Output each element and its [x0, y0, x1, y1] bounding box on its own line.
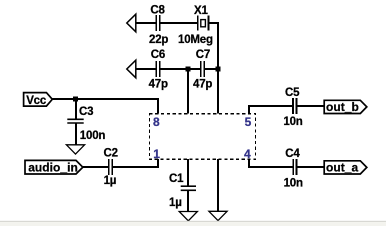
wire — [217, 159, 219, 211]
capacitor C1 — [169, 173, 196, 209]
ground — [179, 212, 197, 221]
svg-text:C7: C7 — [196, 49, 210, 61]
IC dashed outline — [149, 114, 255, 160]
svg-text:10Meg: 10Meg — [178, 34, 213, 46]
wire — [112, 166, 159, 168]
wire — [157, 159, 159, 168]
port Vcc — [24, 93, 53, 107]
wire — [157, 98, 159, 114]
wire — [248, 159, 250, 168]
port audio_in — [25, 160, 83, 174]
capacitor C4 — [284, 148, 303, 189]
wire — [187, 69, 189, 114]
capacitor C3 — [67, 106, 105, 142]
junction — [216, 67, 221, 72]
input port arrow — [127, 14, 136, 32]
wire — [75, 99, 77, 119]
port out_a — [324, 161, 367, 175]
wire — [208, 22, 219, 24]
svg-text:C5: C5 — [285, 87, 300, 99]
capacitor C2 — [104, 148, 118, 188]
svg-text:out_a: out_a — [326, 161, 359, 175]
svg-text:1µ: 1µ — [169, 197, 182, 209]
wire — [204, 68, 219, 70]
wire — [160, 68, 201, 70]
window bottom separator — [0, 221, 386, 222]
wire — [136, 68, 157, 70]
wire — [297, 166, 325, 168]
wire — [75, 123, 77, 144]
capacitor C7 — [193, 49, 212, 91]
wire — [217, 22, 219, 114]
capacitor C5 — [283, 87, 302, 128]
svg-text:4: 4 — [244, 147, 251, 161]
svg-text:Vcc: Vcc — [26, 95, 47, 107]
input port arrow — [127, 60, 136, 78]
svg-text:47p: 47p — [193, 79, 212, 91]
wire — [296, 105, 324, 107]
capacitor C8 — [149, 4, 168, 45]
svg-text:22p: 22p — [149, 34, 168, 46]
svg-text:10n: 10n — [284, 177, 303, 189]
svg-text:5: 5 — [245, 115, 252, 129]
junction — [73, 97, 78, 102]
ground — [209, 211, 227, 220]
wire — [187, 159, 189, 186]
svg-text:100n: 100n — [80, 130, 106, 142]
svg-text:47p: 47p — [149, 79, 168, 91]
svg-text:1µ: 1µ — [104, 175, 117, 187]
svg-text:C2: C2 — [104, 148, 118, 160]
svg-text:8: 8 — [153, 115, 160, 129]
svg-text:out_b: out_b — [326, 100, 359, 114]
port out_b — [324, 100, 367, 114]
svg-text:C1: C1 — [169, 173, 184, 185]
crystal X1 — [178, 5, 213, 46]
svg-text:X1: X1 — [194, 5, 208, 17]
wire — [249, 166, 293, 168]
wire — [249, 105, 293, 107]
wire — [136, 22, 157, 24]
svg-text:C4: C4 — [285, 148, 300, 160]
wire — [83, 166, 109, 168]
svg-text:1: 1 — [153, 147, 160, 161]
svg-text:C6: C6 — [151, 49, 165, 61]
svg-text:C3: C3 — [79, 106, 93, 118]
wire — [160, 22, 198, 24]
wire — [52, 98, 159, 100]
ground — [66, 145, 84, 154]
svg-text:10n: 10n — [283, 116, 302, 128]
wire — [187, 190, 189, 212]
svg-text:audio_in: audio_in — [28, 161, 78, 175]
junction — [186, 67, 191, 72]
capacitor C6 — [149, 49, 168, 91]
svg-text:C8: C8 — [150, 4, 165, 16]
wire — [248, 105, 250, 114]
